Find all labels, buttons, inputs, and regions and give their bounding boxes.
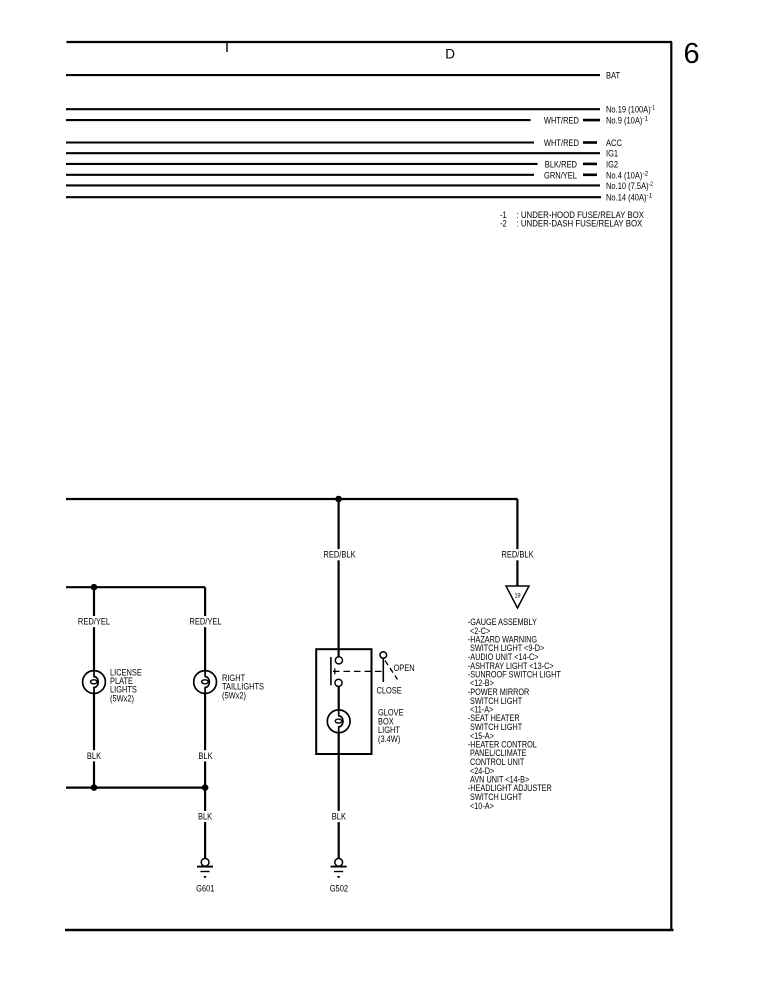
- svg-text:IG1: IG1: [606, 148, 618, 159]
- svg-text:No.10 (7.5A): No.10 (7.5A): [606, 180, 649, 191]
- svg-text:-2: -2: [500, 218, 507, 229]
- svg-text:-1: -1: [642, 116, 648, 123]
- svg-text:-2: -2: [642, 170, 648, 177]
- svg-text:OPEN: OPEN: [394, 663, 415, 673]
- svg-text:BLK: BLK: [332, 811, 347, 822]
- svg-text:BLK: BLK: [198, 811, 213, 822]
- svg-text:-2: -2: [649, 181, 654, 188]
- svg-text:BAT: BAT: [606, 70, 620, 81]
- svg-text:6: 6: [684, 38, 700, 70]
- svg-text:G502: G502: [330, 883, 348, 894]
- svg-text:(5Wx2): (5Wx2): [110, 693, 134, 703]
- svg-text:(3.4W): (3.4W): [378, 734, 400, 744]
- svg-text:RED/YEL: RED/YEL: [189, 616, 221, 627]
- svg-text:RED/YEL: RED/YEL: [78, 616, 110, 627]
- svg-text:D: D: [445, 47, 455, 62]
- svg-text:BLK/RED: BLK/RED: [545, 158, 577, 169]
- svg-text:-1: -1: [647, 193, 653, 200]
- svg-text:RED/BLK: RED/BLK: [501, 549, 534, 560]
- svg-text:RED/BLK: RED/BLK: [323, 549, 356, 560]
- svg-text:<10-A>: <10-A>: [470, 801, 494, 811]
- svg-text:CLOSE: CLOSE: [377, 686, 402, 696]
- svg-text:No.4 (10A): No.4 (10A): [606, 169, 642, 180]
- svg-text:G601: G601: [196, 883, 214, 894]
- svg-text:19: 19: [514, 592, 520, 599]
- svg-text:No.19 (100A): No.19 (100A): [606, 104, 651, 115]
- svg-text:WHT/RED: WHT/RED: [544, 137, 579, 148]
- svg-text:ACC: ACC: [606, 137, 622, 148]
- svg-text:-1: -1: [651, 105, 656, 112]
- svg-text:BLK: BLK: [87, 750, 102, 761]
- svg-text:(5Wx2): (5Wx2): [222, 690, 246, 700]
- svg-text:BLK: BLK: [198, 750, 213, 761]
- svg-text:No.9 (10A): No.9 (10A): [606, 115, 642, 126]
- svg-text:No.14 (40A): No.14 (40A): [606, 192, 647, 203]
- svg-text:GRN/YEL: GRN/YEL: [544, 169, 577, 180]
- svg-text:IG2: IG2: [606, 158, 618, 169]
- svg-text:: UNDER-DASH FUSE/RELAY BOX: : UNDER-DASH FUSE/RELAY BOX: [517, 218, 643, 229]
- svg-text:WHT/RED: WHT/RED: [544, 115, 579, 126]
